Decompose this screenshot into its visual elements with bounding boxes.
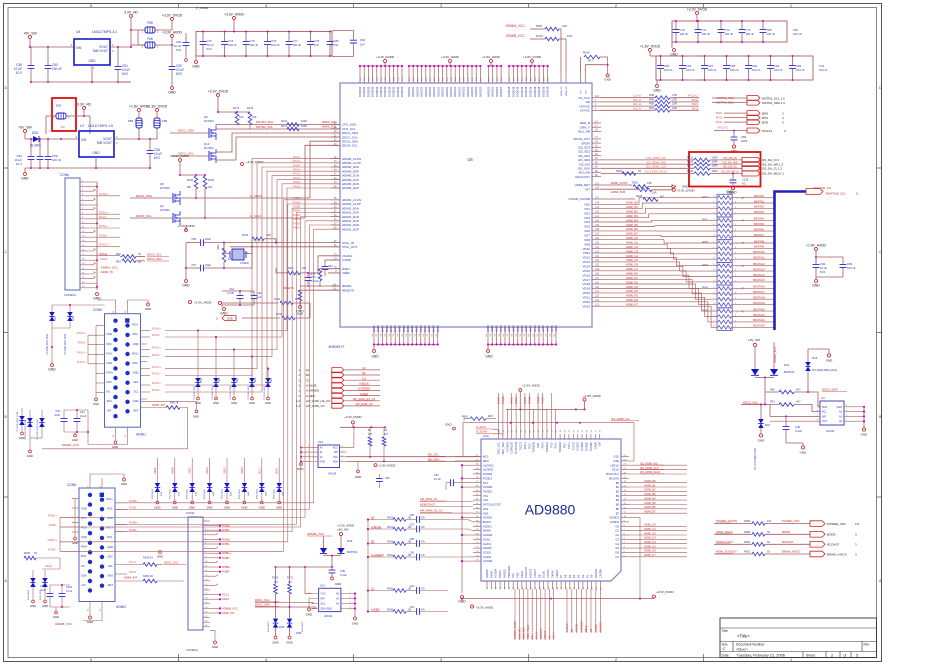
svg-text:R217: R217	[687, 165, 694, 168]
svg-text:+3.3V_AVDD: +3.3V_AVDD	[194, 301, 213, 305]
svg-text:R183: R183	[616, 170, 623, 173]
svg-text:I2S_DA_CL 1,3: I2S_DA_CL 1,3	[762, 167, 782, 171]
svg-text:AVDD33: AVDD33	[462, 87, 466, 97]
svg-text:R78: R78	[310, 273, 315, 276]
capacitor C63c	[322, 267, 329, 270]
power +1.8V_DVDD u12	[374, 464, 377, 467]
svg-text:RXBC-: RXBC-	[222, 556, 230, 560]
svg-text:CON9: CON9	[93, 308, 102, 312]
transistor Q4 2N7002	[209, 128, 211, 138]
capacitor C84	[767, 66, 774, 69]
wire	[325, 259, 340, 261]
wire	[368, 543, 393, 545]
wire	[765, 533, 810, 535]
svg-text:RXA1-: RXA1-	[78, 341, 86, 345]
ground	[223, 308, 226, 311]
capacitor C68	[723, 66, 730, 69]
wire WP gnd	[309, 599, 312, 609]
svg-text:10uF: 10uF	[54, 414, 60, 417]
svg-text:G3: G3	[615, 537, 619, 541]
wire	[120, 256, 122, 258]
wire	[301, 461, 311, 463]
wire	[74, 499, 76, 533]
wire	[585, 589, 587, 633]
wire	[276, 272, 287, 274]
svg-text:BAT54C: BAT54C	[347, 550, 358, 554]
wire	[288, 45, 290, 56]
svg-text:RXB0-: RXB0-	[129, 528, 137, 532]
wire	[52, 327, 70, 329]
TVS diode D24	[19, 416, 25, 421]
svg-text:G2: G2	[615, 533, 619, 537]
wire	[714, 523, 752, 525]
svg-text:VCC: VCC	[333, 446, 338, 449]
svg-text:DVDD18: DVDD18	[533, 86, 537, 97]
svg-text:B2: B2	[616, 490, 620, 494]
svg-text:AGND3: AGND3	[483, 559, 493, 563]
wire	[559, 38, 566, 40]
wire	[629, 556, 687, 558]
wire	[714, 130, 747, 132]
U6 top pin group +3.3V_DVDD	[360, 65, 402, 67]
svg-text:R112: R112	[281, 120, 287, 123]
wire	[383, 427, 385, 437]
wire	[320, 268, 340, 270]
wire	[724, 121, 747, 123]
wire	[180, 174, 205, 176]
svg-text:DVDD18: DVDD18	[537, 86, 541, 97]
svg-text:RX1: RX1	[81, 516, 87, 520]
svg-text:HDMI_G5: HDMI_G5	[626, 258, 638, 262]
svg-text:RX1-: RX1-	[107, 535, 113, 539]
svg-text:GND: GND	[133, 399, 139, 403]
wire	[420, 519, 468, 521]
wire	[462, 560, 473, 562]
power +1.8V_DVDD row	[649, 49, 652, 52]
svg-text:R209 33: R209 33	[143, 556, 153, 560]
wire	[261, 492, 263, 501]
wire	[127, 427, 129, 437]
wire	[420, 512, 473, 514]
flag I2S_DA_IN	[742, 157, 760, 162]
AD9880 right pins	[621, 456, 629, 458]
svg-text:VIN: VIN	[81, 138, 87, 142]
wire	[289, 567, 291, 584]
svg-text:RX0+: RX0+	[81, 545, 88, 549]
wire	[420, 556, 468, 558]
svg-text:RXA0+: RXA0+	[99, 224, 108, 228]
wire	[670, 105, 699, 107]
svg-text:100 nF: 100 nF	[293, 43, 302, 47]
diode D14 BAT54C	[751, 369, 759, 375]
svg-text:DVDD33: DVDD33	[396, 86, 400, 97]
wire	[712, 102, 747, 104]
svg-text:HDMI_R2: HDMI_R2	[626, 280, 638, 284]
wire	[762, 33, 764, 42]
wire	[50, 584, 70, 586]
svg-text:1nF: 1nF	[314, 43, 319, 47]
capacitor C52	[169, 67, 176, 70]
wire	[682, 69, 684, 80]
wire	[671, 42, 673, 48]
svg-text:+3.3V_DVDD: +3.3V_DVDD	[246, 160, 263, 164]
wire	[560, 29, 562, 72]
svg-text:RXAC-: RXAC-	[293, 155, 301, 159]
svg-text:47n: 47n	[421, 554, 426, 557]
wire	[324, 555, 342, 557]
svg-text:VSYNC: VSYNC	[580, 109, 591, 113]
ground D40	[173, 501, 176, 504]
svg-text:HDMI_G7: HDMI_G7	[626, 267, 638, 271]
svg-text:RXB2-: RXB2-	[129, 506, 137, 510]
svg-text:CSYNC: CSYNC	[546, 569, 550, 578]
svg-text:R268: R268	[24, 552, 31, 555]
svg-text:6V3: 6V3	[176, 48, 181, 52]
wire	[378, 482, 380, 488]
svg-text:CKINV: CKINV	[550, 570, 554, 578]
svg-text:HDMI_B2: HDMI_B2	[626, 210, 638, 214]
IC U20 AD9880 body	[481, 439, 621, 581]
wire	[47, 47, 49, 65]
svg-text:HDMI2: HDMI2	[116, 605, 126, 609]
wire	[585, 64, 607, 66]
wire	[30, 47, 32, 65]
wire	[710, 163, 742, 165]
wire	[215, 337, 217, 378]
svg-text:135: 135	[595, 242, 600, 245]
wire	[226, 492, 228, 501]
svg-text:SCL1: SCL1	[258, 467, 261, 474]
wire	[566, 589, 568, 633]
title block frame	[720, 618, 877, 658]
wire	[816, 256, 843, 258]
IC U12 24C04	[318, 445, 340, 468]
svg-text:BAIN0: BAIN0	[483, 529, 491, 533]
svg-text:100 nF: 100 nF	[52, 67, 62, 71]
svg-text:R2: R2	[384, 428, 388, 432]
wire	[629, 464, 687, 466]
wire	[310, 45, 312, 56]
svg-text:4K7: 4K7	[588, 59, 593, 63]
power +3.3V_DVDD	[171, 18, 174, 21]
svg-text:C86: C86	[410, 514, 415, 517]
resistor network RN5	[717, 285, 732, 308]
svg-text:HS1: HS1	[483, 507, 489, 511]
wire	[155, 29, 172, 31]
svg-text:AVSS: AVSS	[512, 325, 516, 332]
wire	[527, 589, 529, 640]
svg-text:GND: GND	[371, 355, 379, 359]
svg-text:R96: R96	[649, 97, 654, 101]
svg-text:GAIN0: GAIN0	[483, 555, 492, 559]
svg-text:A-BLUE: A-BLUE	[306, 384, 317, 388]
svg-text:LM1117MPS-3.3: LM1117MPS-3.3	[92, 30, 117, 34]
wire	[191, 492, 193, 501]
svg-text:GND: GND	[92, 151, 100, 155]
svg-text:OVDD4: OVDD4	[610, 520, 620, 524]
wire	[50, 606, 70, 608]
svg-text:RN5: RN5	[702, 286, 708, 290]
capacitor C82	[813, 265, 820, 268]
power +3.3V_DVDD q13	[241, 163, 244, 166]
wire	[601, 167, 694, 169]
svg-text:AIP_RAW_VS: AIP_RAW_VS	[306, 404, 324, 408]
svg-text:SDA: SDA	[822, 406, 827, 409]
svg-text:C89: C89	[410, 552, 415, 555]
svg-text:BOE: BOE	[716, 120, 722, 124]
wire	[600, 589, 602, 633]
TVS diode D45	[259, 483, 265, 488]
svg-text:TVCC1: TVCC1	[543, 396, 545, 404]
wire	[851, 406, 864, 408]
flag I2S_DA_CL	[742, 166, 760, 171]
wire	[191, 458, 193, 483]
svg-text:24C04: 24C04	[328, 471, 337, 475]
wire	[601, 109, 655, 111]
wire	[601, 184, 632, 186]
svg-text:RX0: RX0	[81, 554, 87, 558]
wire	[32, 587, 34, 600]
svg-text:RXB0+: RXB0+	[222, 565, 231, 569]
svg-text:ITC ESD-0603: ITC ESD-0603	[194, 385, 196, 400]
wire	[47, 160, 49, 168]
svg-text:VS1: VS1	[483, 494, 489, 498]
wire	[519, 392, 521, 409]
svg-text:HDMI_5V: HDMI_5V	[561, 86, 563, 96]
wire	[76, 410, 78, 418]
svg-text:GND: GND	[241, 506, 247, 510]
wire	[629, 473, 687, 475]
regulator U7 LM1117MPX-1.8	[79, 131, 114, 157]
svg-text:R4: R4	[572, 574, 576, 578]
svg-text:VD5: VD5	[584, 225, 590, 229]
svg-text:100R: 100R	[301, 120, 307, 123]
wire	[289, 628, 291, 636]
svg-text:B3: B3	[362, 371, 366, 375]
svg-text:SDA GND: SDA GND	[321, 608, 332, 611]
svg-text:10K: 10K	[208, 186, 213, 189]
svg-text:SDA: SDA	[516, 572, 520, 578]
svg-text:D23: D23	[271, 377, 273, 382]
svg-text:47n: 47n	[421, 587, 426, 590]
svg-text:C218: C218	[742, 178, 749, 182]
wire	[755, 377, 774, 379]
svg-text:MSTR2_SDA 1,3: MSTR2_SDA 1,3	[762, 101, 785, 105]
wire	[531, 589, 533, 640]
svg-text:TORED2: TORED2	[558, 441, 562, 452]
wire	[629, 469, 687, 471]
wire	[324, 260, 326, 266]
svg-text:HDMI_FIELD: HDMI_FIELD	[527, 625, 530, 639]
svg-text:0.1uF: 0.1uF	[80, 415, 87, 418]
svg-text:CRGB0: CRGB0	[598, 569, 602, 578]
power +1.8V_AVDD	[138, 109, 141, 112]
wire	[329, 32, 331, 42]
svg-text:+1.8V_AVDD: +1.8V_AVDD	[482, 55, 501, 59]
svg-text:G4: G4	[615, 542, 619, 546]
wire	[733, 141, 735, 146]
svg-text:CON#24: CON#24	[64, 293, 76, 297]
transistor Q13 2N7002	[209, 151, 211, 161]
svg-text:DVSS: DVSS	[427, 325, 431, 332]
wire	[548, 589, 550, 640]
wire	[368, 556, 393, 558]
svg-text:A3: A3	[371, 515, 375, 519]
svg-text:HDMIB_VCC: HDMIB_VCC	[55, 622, 72, 626]
svg-text:143: 143	[595, 206, 600, 209]
svg-text:AVDD18: AVDD18	[491, 87, 495, 97]
svg-text:VD17: VD17	[582, 278, 590, 282]
wire	[649, 52, 651, 56]
svg-text:10K: 10K	[562, 24, 567, 28]
wire	[524, 393, 526, 434]
svg-text:+5V_SW: +5V_SW	[23, 31, 37, 35]
wire	[66, 115, 84, 117]
wire	[748, 69, 750, 80]
svg-text:100 nF: 100 nF	[730, 68, 739, 72]
svg-text:HDMI_SOGOUT: HDMI_SOGOUT	[716, 550, 737, 554]
wire	[601, 163, 694, 165]
svg-text:+3.3V_DVDD: +3.3V_DVDD	[376, 55, 395, 59]
svg-text:RN3: RN3	[702, 240, 708, 244]
ground D20	[215, 397, 218, 400]
wire	[275, 268, 277, 273]
wire	[195, 189, 197, 198]
svg-text:DVDD18: DVDD18	[529, 86, 533, 97]
svg-text:HDMIA_VCC: HDMIA_VCC	[101, 266, 117, 270]
svg-text:GND: GND	[213, 401, 219, 405]
svg-text:DVSS: DVSS	[385, 325, 389, 332]
flag I2S_DA_MCLK	[742, 171, 760, 176]
svg-text:HDMIB_VCC: HDMIB_VCC	[222, 606, 238, 610]
wire	[765, 553, 810, 555]
wire	[55, 607, 57, 611]
svg-text:RXA1-: RXA1-	[293, 172, 301, 176]
wire	[741, 21, 743, 29]
svg-text:GND: GND	[133, 370, 139, 374]
svg-text:HDMI0_D2P: HDMI0_D2P	[342, 186, 359, 190]
svg-text:G6: G6	[615, 551, 619, 555]
svg-text:F89: F89	[162, 119, 168, 123]
svg-text:DVSS: DVSS	[423, 325, 427, 332]
svg-text:I2S_HDMI_WS: I2S_HDMI_WS	[640, 461, 658, 465]
svg-text:D19: D19	[201, 377, 203, 382]
capacitor C72	[718, 30, 725, 33]
svg-text:R2: R2	[581, 574, 585, 578]
TVS diode D46	[276, 483, 282, 488]
wire	[307, 281, 309, 287]
svg-text:AVDD18: AVDD18	[487, 87, 491, 97]
svg-text:GND: GND	[861, 433, 869, 437]
svg-text:GND: GND	[207, 506, 213, 510]
svg-text:PXC+: PXC+	[567, 442, 571, 449]
svg-text:POWER_OFF: POWER_OFF	[827, 522, 846, 526]
wire	[590, 589, 592, 633]
wire	[714, 543, 752, 545]
svg-text:MSTR2_SCL 1,3: MSTR2_SCL 1,3	[762, 96, 785, 100]
svg-text:BCOAST: BCOAST	[782, 540, 794, 544]
svg-text:RN6: RN6	[702, 308, 708, 312]
wire	[185, 46, 187, 58]
wire	[87, 410, 89, 445]
svg-text:PVTPTAM: PVTPTAM	[514, 442, 518, 454]
svg-text:100R: 100R	[712, 156, 718, 159]
svg-text:HDMI_G7: HDMI_G7	[644, 553, 656, 557]
svg-text:SCL1: SCL1	[222, 593, 229, 597]
capacitor C73	[200, 42, 207, 45]
svg-text:VD9: VD9	[584, 242, 590, 246]
svg-text:GND: GND	[112, 445, 118, 449]
svg-text:CON8: CON8	[67, 483, 76, 487]
wire	[64, 431, 88, 433]
wire	[267, 32, 269, 42]
svg-text:123: 123	[595, 295, 600, 298]
wire	[63, 410, 65, 418]
power +3.3V_DVDD ddc	[217, 94, 220, 97]
svg-text:RESETN: RESETN	[342, 288, 354, 292]
svg-text:0.1uF: 0.1uF	[340, 573, 347, 577]
svg-text:VD16: VD16	[582, 273, 590, 277]
svg-text:+5V_SW: +5V_SW	[337, 528, 349, 532]
svg-text:VD15: VD15	[582, 269, 590, 273]
svg-text:ALGND1: ALGND1	[483, 463, 494, 467]
wire	[253, 299, 255, 305]
svg-text:LRCLK: LRCLK	[610, 463, 619, 467]
wire	[275, 594, 277, 619]
capacitor C81	[350, 40, 357, 43]
wire	[157, 564, 163, 566]
cap row rail box	[196, 32, 332, 57]
wire	[251, 357, 253, 378]
svg-text:GND: GND	[107, 545, 113, 549]
wire	[233, 20, 235, 32]
svg-text:124: 124	[595, 290, 600, 293]
svg-text:DVDD33: DVDD33	[358, 86, 362, 97]
svg-text:HDMI_B0: HDMI_B0	[644, 479, 656, 483]
svg-text:RXB0-: RXB0-	[222, 570, 230, 574]
svg-text:DVDD33: DVDD33	[371, 86, 375, 97]
ground D45	[260, 501, 263, 504]
svg-text:47n: 47n	[421, 540, 426, 543]
svg-text:142: 142	[595, 211, 600, 214]
svg-text:SDA1: SDA1	[276, 467, 279, 474]
wire	[792, 56, 794, 65]
svg-text:100 nF: 100 nF	[664, 68, 673, 72]
wire	[84, 115, 90, 117]
flag BODD	[810, 532, 825, 538]
svg-text:PXIN0+: PXIN0+	[529, 395, 531, 404]
svg-text:R99: R99	[649, 93, 654, 97]
wire	[354, 594, 356, 616]
svg-text:100 nF: 100 nF	[767, 32, 776, 36]
svg-text:+1.8V_AVDD: +1.8V_AVDD	[583, 394, 602, 398]
CON8 left wires	[60, 517, 79, 519]
svg-text:AGND1: AGND1	[483, 516, 493, 520]
wire	[224, 45, 226, 56]
svg-text:DDC0_SCL: DDC0_SCL	[342, 144, 358, 148]
svg-text:R425: R425	[387, 587, 393, 590]
resistor R79	[298, 290, 302, 301]
wire	[629, 482, 687, 484]
svg-text:U7: U7	[80, 124, 84, 128]
svg-text:DVSS: DVSS	[432, 325, 436, 332]
svg-text:CON4: CON4	[186, 511, 195, 515]
svg-text:VD18: VD18	[582, 282, 590, 286]
svg-text:AVDD33: AVDD33	[453, 87, 457, 97]
wire	[242, 317, 280, 319]
wire	[115, 303, 117, 314]
AD9880 bottom pins	[486, 581, 488, 589]
